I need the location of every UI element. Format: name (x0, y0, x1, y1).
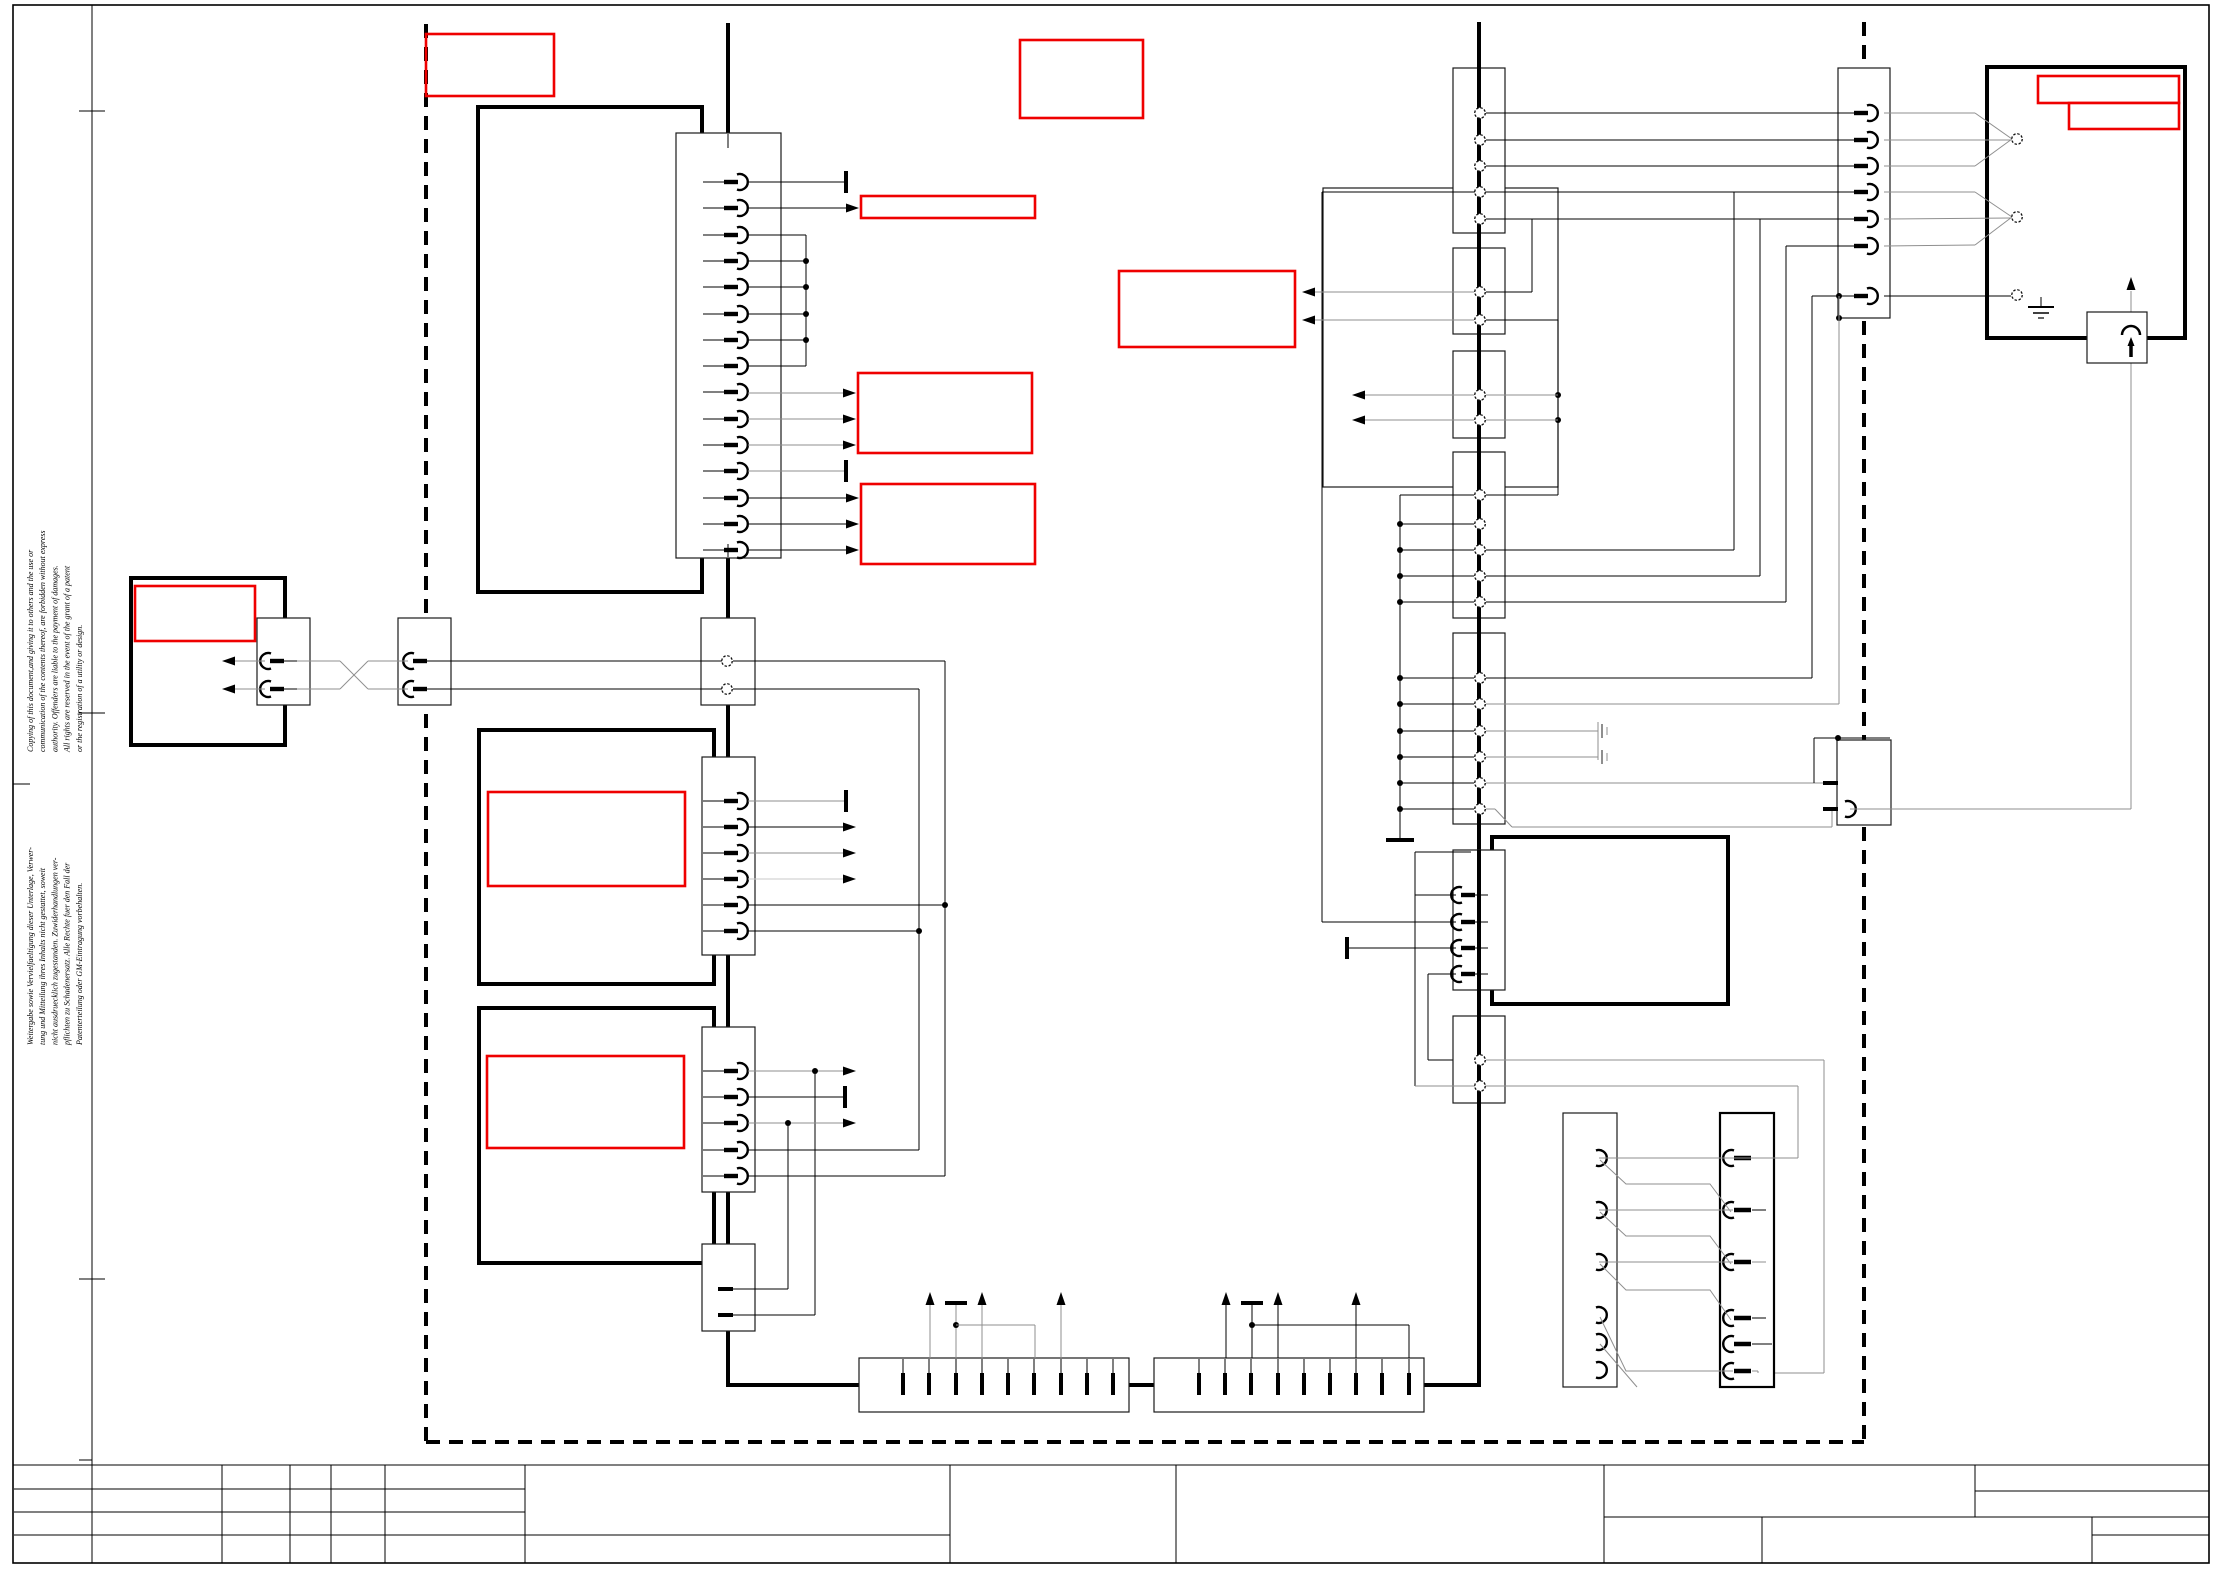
wire X7.2 to X2.2 (440, 688, 722, 690)
wire X3.6 to node J2 (748, 928, 922, 1150)
wire X25.1 loop (1415, 852, 1471, 1086)
connector X22 circle pins (over bus) (1475, 390, 1485, 425)
wire X1.12 to terminator (748, 460, 846, 482)
wire X26.2 gray loop to X51.1 (1415, 1086, 1798, 1158)
connector X7 pins (403, 653, 440, 697)
right bus through connector chain (1477, 22, 1481, 1104)
connector X6 body (on B1) (257, 618, 310, 705)
wire X24.6 to X40.2 (1486, 809, 1832, 827)
module U1 (top right) (1987, 67, 2185, 338)
module K4 (1492, 837, 1728, 1004)
svg-text:All rights are reserved in the: All rights are reserved in the event of … (63, 565, 72, 753)
connector X24 circle pins (over bus) (1475, 673, 1485, 814)
crossed pair X6-X7 (297, 661, 408, 689)
wire X30.2 tail to U1 (1884, 139, 2011, 141)
wire X24.3 to chassis ground (1486, 722, 1607, 764)
wire X2.1 to node J1 (733, 661, 945, 905)
svg-text:nicht ausdruecklich zugestand: nicht ausdruecklich zugestanden. Zuwider… (50, 857, 59, 1045)
wire X25.2 to X20.4 riser (1322, 921, 1456, 923)
wire X30.1 tail to U1 (1884, 112, 1975, 114)
connector X51 body (right column) (1720, 1113, 1774, 1387)
wire X1.9 to label RB (748, 389, 856, 398)
wire X6.2 arrow into B1 (222, 685, 265, 694)
wire X4.5 from node J1 (748, 1175, 945, 1177)
wire X30.3 tail to U1 (1884, 165, 1975, 167)
wire X24.4 to chassis ground (1486, 756, 1598, 758)
cabinet boundary dashed bottom (426, 1440, 1864, 1444)
connector X6 pins (260, 653, 297, 697)
label box (redacted) in A3 (487, 1056, 684, 1148)
block outline K2 (1323, 188, 1558, 487)
label box (redacted) top-left (426, 34, 554, 96)
right bus lower vertical (1477, 1104, 1481, 1387)
connector X1 pins (703, 174, 748, 558)
wire X4.2 to terminator (748, 1086, 845, 1108)
wire X24.5 to X40.1 (1486, 782, 1836, 784)
label box (redacted) for X1.9-11 (858, 373, 1032, 453)
fold mark ticks (13, 111, 105, 1460)
wire X50.1-X51.1 row (1599, 1157, 1798, 1159)
connector X21 circle pins (over bus) (1475, 287, 1485, 325)
strip X10 supply symbol (945, 1303, 1035, 1358)
connector X50 body (left column) (1563, 1113, 1617, 1387)
label box (redacted) X1.2 net name (861, 196, 1035, 218)
connector X30 pins (1833, 105, 1878, 304)
connector X40 body (1837, 740, 1891, 825)
connector X23 circle pins (1475, 490, 1485, 607)
bottom rail strip2 to right bus (1423, 1383, 1481, 1387)
terminal strip X11 pins (1199, 1359, 1409, 1395)
wire X30.7 branch (1486, 296, 1841, 678)
wire X26.1 gray loop to X51.6 (1486, 1060, 1824, 1373)
label box (redacted) in A2 (488, 792, 685, 886)
connector X2 circle pins (722, 656, 732, 694)
connector X5 pins (718, 1289, 733, 1315)
connector X26 circle pins (1475, 1055, 1485, 1091)
module A1 (control unit) (478, 107, 702, 592)
wire X7.1 to X2.1 (440, 660, 722, 662)
connector X20 body (1453, 68, 1505, 233)
connector circle pins overlay (722, 108, 2022, 1091)
wire arrows X22 (into K2) (1352, 391, 1474, 425)
wire X3.4 arrow (748, 875, 856, 884)
wire X4.3 arrow with tap (748, 1119, 856, 1290)
connector X3 body (702, 757, 755, 955)
wire X5.1 to X4.3 tap (733, 1288, 788, 1290)
connector X2 body (bus tap) (701, 618, 755, 705)
wire X1.10 to label RB (748, 415, 856, 424)
connector X21 circle pins (1475, 287, 1485, 325)
label box (redacted) U1 name (2038, 76, 2179, 103)
wire X6.1 arrow into B1 (222, 657, 265, 666)
module U1 input circles (2012, 134, 2022, 300)
bottom supply rail left (726, 1383, 861, 1387)
wire X3.3 arrow (748, 849, 856, 858)
boundary connector X30 body (1838, 68, 1890, 318)
supply bus vertical top segment (726, 23, 730, 134)
wire X20.1-X30.1 (1486, 112, 1841, 114)
connector X5 body (702, 1244, 755, 1331)
supply bus X5 to bottom rail (726, 1330, 730, 1387)
connector X4 pins (703, 1063, 748, 1184)
module A3 (479, 1008, 714, 1263)
wire X3.2 arrow (748, 823, 856, 832)
terminal strip X11 body (1154, 1358, 1424, 1412)
svg-text:or the registration of a utili: or the registration of a utility or desi… (75, 625, 84, 752)
strip X10 up-arrow wires (926, 1292, 1066, 1358)
svg-text:pflichten zu Schadenersatz. Al: pflichten zu Schadenersatz. Alle Rechte … (63, 862, 72, 1046)
wire X1.11 to label RB (748, 441, 856, 450)
wire X30.6 tail to U1 (1884, 245, 1975, 246)
terminal strip X10 body (859, 1358, 1129, 1412)
crossover X50.2-X51.3 (1600, 1212, 1731, 1264)
wire X1.1 to terminator (748, 171, 846, 193)
wire X21.2 loop to X23.1 (1486, 320, 1561, 495)
svg-text:tung und Mitteilung ihres Inha: tung und Mitteilung ihres Inhalts nicht … (38, 867, 47, 1045)
terminal strip X10 pins (903, 1359, 1113, 1395)
svg-text:Patenterteilung oder GM-Eintra: Patenterteilung oder GM-Eintragung vorbe… (75, 883, 84, 1046)
connector X1 body (676, 133, 781, 558)
label box (redacted) U1 type (2069, 103, 2179, 129)
connector X3 pins (703, 793, 748, 939)
wire bracket X1.3-X1.8 common (748, 235, 809, 366)
wire X4.4 from node J2 (748, 1149, 919, 1151)
wire X2.2 to node J2 (733, 689, 919, 931)
copyright notice (english) (26, 530, 84, 753)
connector X26 circle pins (over bus) (1475, 1055, 1485, 1091)
device B1 (sensor, left) (131, 578, 285, 745)
wire arrows X21 (into K2) (1302, 288, 1474, 325)
svg-text:Weitergabe sowie Vervielfaelti: Weitergabe sowie Vervielfaeltigung diese… (26, 847, 35, 1045)
wire X30.4 tail to U1 (1884, 191, 1975, 193)
copyright notice (german) (26, 847, 84, 1046)
wire X5.2 to X4.1 tap (733, 1314, 815, 1316)
wire X40 top cap (1814, 735, 1890, 783)
wire X30.6 branch (1486, 246, 1841, 602)
speaker symbol U1 bottom (1975, 192, 2012, 245)
connector X25 pins (1451, 887, 1488, 982)
wire X51.5 tail (1752, 1343, 1772, 1345)
wire X1.2 to label (748, 204, 859, 213)
connector X51 pins (1723, 1150, 1751, 1379)
module A2 (479, 730, 714, 984)
label box (redacted) for X21 arrows (1119, 271, 1295, 347)
wire X3.5 to node J1 (748, 902, 948, 1176)
svg-text:Copying of this document,and g: Copying of this document,and giving it t… (26, 549, 35, 752)
cabinet boundary dashed left (424, 24, 428, 1442)
connector X23 body (1453, 452, 1505, 618)
connector X20 circle pins (over bus) (1475, 108, 1485, 224)
cabinet boundary dashed right (1862, 22, 1866, 1442)
wire X50.2-X51.2 row (1599, 1209, 1766, 1211)
label box (redacted) mid-top (1020, 40, 1143, 118)
crossover X50.4-X51.6 (1600, 1317, 1733, 1371)
wire X20.4-X30.4 with branch (1322, 192, 1841, 922)
wire X51.6 tail to boundary (1752, 1371, 1758, 1373)
strip X11 supply symbol (1241, 1303, 1409, 1358)
title block grid (13, 1465, 2209, 1563)
wire X51.4 tail (1752, 1317, 1766, 1319)
connector X25 body (on K4) (1453, 850, 1505, 990)
wire X30.7 tail to U1 ground pin (1884, 295, 2011, 297)
wire X20.2-X30.2 (1486, 139, 1841, 141)
label box (redacted) in B1 (135, 586, 255, 641)
wire X20.3-X30.3 (1486, 165, 1841, 167)
wire X25.3 to terminator (1347, 937, 1456, 959)
wire X30.7 gray tap to X24.2 (1486, 293, 1842, 704)
wire X4.1 arrow with tap (748, 1067, 856, 1316)
bus thin trace through X1 (727, 134, 729, 557)
supply bus between X1 and X2 (726, 557, 730, 620)
wire X30.5 tail to U1 (1884, 218, 2011, 219)
wire X40.2 to supply arrow (1850, 277, 2136, 809)
wire X1.15 to label RC (748, 546, 859, 555)
crossover X50.5 stub (1600, 1344, 1637, 1387)
connector X26 body (1453, 1016, 1505, 1103)
wire X25.4 down to X26.1 (1428, 974, 1474, 1060)
connector X7 body (cabinet wall) (398, 618, 451, 705)
wire X1.14 to label RC (748, 520, 859, 529)
chassis ground in U1 (2028, 297, 2054, 318)
bottom rail link strip1-strip2 (1128, 1383, 1155, 1387)
speaker symbol U1 top (1975, 113, 2012, 166)
wire X20.5-X30.5 with branches (1486, 219, 1841, 576)
frame inner margin line (91, 5, 93, 1563)
svg-text:authority. Offenders are liabl: authority. Offenders are liable to the p… (50, 565, 59, 752)
label box (redacted) for X1.13-15 (861, 484, 1035, 564)
connector X40 pins (1823, 783, 1856, 817)
connector X24 circle pins (1475, 673, 1485, 814)
connector X21 body (1453, 248, 1505, 334)
svg-text:communication of the contents: communication of the contents thereof, a… (38, 530, 47, 752)
supply bus between X4 and X5 (726, 1191, 730, 1245)
wire X1.13 to label RC (748, 494, 859, 503)
connector X24 body (1453, 633, 1505, 824)
connector X23 circle pins (over bus) (1475, 490, 1485, 607)
supply bus between X2 and X3 (726, 703, 730, 758)
connector X4 body (702, 1027, 755, 1192)
connector X22 circle pins (1475, 390, 1485, 425)
right bus through X25 and X26 (1477, 850, 1481, 1106)
wire X50.3-X51.3 row (1599, 1261, 1766, 1263)
wire X3.1 to terminator (748, 790, 846, 812)
supply bus between X3 and X4 (726, 954, 730, 1028)
strip X11 up-arrow wires (1222, 1292, 1361, 1358)
crossover X50.1-X51.2 (1600, 1160, 1731, 1212)
crossover X50.3-X51.4 (1600, 1264, 1731, 1320)
connector X22 body (1453, 351, 1505, 438)
power feed box at U1 (2087, 312, 2147, 363)
ground ladder bus with terminator (1386, 495, 1474, 840)
connector X20 circle pins (1475, 108, 1485, 224)
connector X50 pins (1596, 1150, 1607, 1378)
